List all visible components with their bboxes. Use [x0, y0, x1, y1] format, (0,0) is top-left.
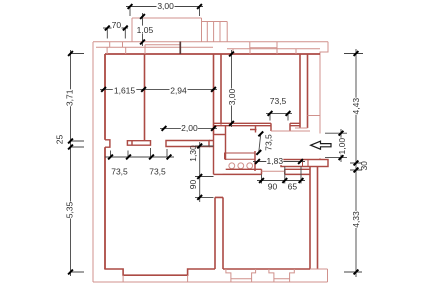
ticks 3,00 vertical: [229, 52, 234, 126]
eaves outline left: [92, 42, 94, 282]
extension lines 73,5 top-right: [270, 113, 288, 120]
dim line 90 / 65: [257, 180, 305, 182]
extension lines 1,00: [325, 133, 347, 157]
svg-text:1,05: 1,05: [137, 25, 154, 35]
balcony steps: [202, 22, 228, 42]
ticks right chain: [354, 51, 359, 274]
label 70: [112, 20, 122, 30]
hall west wall bottom cap: [214, 173, 223, 175]
top wall outer face right section: [227, 48, 320, 50]
label 5,35 rotated: [64, 201, 74, 218]
svg-text:2,94: 2,94: [170, 86, 187, 96]
label 2,00: [181, 123, 198, 133]
svg-text:1,83: 1,83: [267, 156, 284, 166]
ticks 1,05: [140, 14, 145, 44]
svg-text:4,33: 4,33: [351, 211, 361, 228]
svg-text:73,5: 73,5: [149, 166, 166, 176]
svg-text:73,5: 73,5: [270, 96, 287, 106]
ticks 1,83: [255, 159, 303, 164]
central wall upper part: [213, 54, 215, 135]
svg-text:3,71: 3,71: [64, 89, 74, 106]
central wall east line: [220, 54, 222, 125]
dim line 1,05: [142, 13, 144, 46]
label 4,33 rotated: [351, 211, 361, 228]
svg-text:3,00: 3,00: [157, 1, 174, 11]
ticks 1,615 / 2,94: [101, 87, 216, 92]
extension lines 3,00 top: [130, 7, 200, 17]
extension lines 1,30 / 90: [195, 146, 214, 197]
top-right room east wall: [300, 54, 308, 128]
svg-text:4,43: 4,43: [351, 98, 361, 115]
label 1,05: [137, 25, 154, 35]
svg-text:5,35: 5,35: [64, 201, 74, 218]
eaves right entrance lower stub: [319, 158, 321, 160]
left chain extensions: [71, 54, 85, 273]
hall west wall right line: [225, 126, 227, 160]
eaves outline top: [93, 41, 328, 43]
building right wall lower: [310, 167, 318, 270]
label 4,43 rotated: [351, 98, 361, 115]
label 1,83: [266, 156, 283, 166]
dim line 3,00 top: [126, 6, 203, 8]
vestibule north line / threshold: [271, 130, 310, 132]
ticks left chain: [68, 51, 73, 274]
dim line 73,5 / 73,5 doors: [105, 156, 174, 158]
svg-text:25: 25: [55, 135, 65, 145]
stove burner 3: [247, 163, 253, 169]
shaft bottom line: [308, 115, 321, 117]
hall west wall cap: [214, 134, 226, 136]
bottom wall left room inner line with window recess: [104, 269, 215, 275]
pillar (70 cm) on top wall: [107, 42, 126, 54]
interior horizontal wall right jamb: [209, 141, 214, 147]
svg-text:73,5: 73,5: [111, 166, 128, 176]
kitchen counter box: [225, 153, 256, 159]
bottom-right room north wall top line: [226, 168, 310, 170]
window bump top-right: [250, 42, 277, 48]
svg-text:90: 90: [268, 181, 278, 191]
svg-text:70: 70: [112, 20, 122, 30]
dim line 1,00 entrance: [340, 129, 342, 162]
label 2,94: [170, 86, 188, 96]
eaves top right step: [320, 42, 328, 134]
bottom-right room north wall door jambs: [262, 169, 285, 174]
vestibule door jamb at hall: [250, 126, 257, 132]
lower divider wall between bottom rooms: [215, 197, 223, 269]
bottom wall right room inner line: [223, 268, 310, 270]
dim line 1,615 / 2,94: [100, 88, 217, 90]
svg-text:30: 30: [359, 161, 369, 171]
interior wall between small room and middle room: [144, 54, 146, 141]
label 3,00 top: [157, 1, 175, 11]
dim chain 1,30 / 90 left of hall: [199, 142, 201, 202]
ticks 73,5 top-right: [268, 111, 291, 116]
dim line 3,00 vertical: [231, 50, 233, 127]
eaves outline right bottom: [327, 269, 329, 282]
svg-text:1,615: 1,615: [114, 86, 136, 96]
svg-text:2,00: 2,00: [181, 123, 198, 133]
ticks 3,00 top: [128, 4, 202, 9]
ticks 70: [105, 26, 128, 31]
exterior wall left lower: [104, 147, 106, 269]
door threshold bottom-right room: [262, 170, 285, 172]
balcony: [132, 18, 202, 42]
svg-text:90: 90: [188, 180, 198, 190]
dim line 73,5 top-right: [266, 112, 292, 114]
dim line 70: [103, 27, 128, 29]
label 3,71 rotated: [64, 89, 74, 106]
top-right room south wall: [214, 123, 301, 125]
extension ticks 73,5 doors: [111, 148, 168, 157]
interior horizontal wall pier between doors: [127, 141, 150, 146]
kitchen door jamb right: [254, 151, 256, 171]
extension lines 90 / 65: [262, 167, 302, 184]
bottom-right room north wall bottom line: [223, 173, 311, 175]
right dimension chain: [355, 49, 357, 277]
eaves outline bottom: [93, 281, 328, 283]
svg-text:3,00: 3,00: [227, 88, 237, 105]
porch bar pier lines: [303, 160, 309, 167]
window recess side lines to eaves: [123, 275, 188, 282]
svg-text:1,30: 1,30: [188, 145, 198, 162]
hall west wall left line: [213, 135, 215, 175]
dim line 2,00: [160, 127, 217, 129]
entrance porch bar: [281, 160, 328, 167]
ticks 2,00: [162, 126, 216, 131]
ticks 1,30 / 90 chain: [197, 144, 202, 200]
ticks 90 / 65: [259, 178, 303, 183]
dim line 73,5 rotated vertical: [259, 134, 261, 153]
interior horizontal wall threshold box (2,00 opening): [166, 141, 209, 147]
extension lines 70: [107, 28, 125, 39]
window sill line along top wall: [96, 46, 213, 48]
bottom window box 1: [226, 269, 256, 282]
stove burner 2: [238, 163, 244, 169]
label 1,615: [113, 86, 137, 96]
svg-text:1,00: 1,00: [337, 138, 347, 155]
window mullions top-right wall: [233, 48, 296, 54]
stove burner 1: [229, 163, 235, 169]
left dimension chain: [70, 50, 72, 276]
dim line 1,83: [253, 161, 305, 163]
bottom window box 2: [269, 269, 294, 282]
ticks 1,00: [339, 131, 344, 160]
ticks 73,5 doors: [108, 155, 171, 160]
exterior wall top inner line: [105, 53, 320, 55]
right chain extensions: [344, 54, 363, 273]
balcony door dark jamb: [179, 42, 181, 55]
label 3,00 vertical: [227, 88, 237, 105]
exterior wall left upper: [104, 54, 106, 140]
balcony door lines: [145, 45, 180, 54]
interior horizontal wall left jamb jog: [105, 140, 110, 147]
label 1,00 rotated: [337, 138, 347, 155]
top-right room south wall door jambs: [271, 123, 290, 131]
ticks 73,5 rotated: [256, 132, 263, 155]
svg-text:65: 65: [288, 181, 298, 191]
top-right room east wall bottom cap: [295, 127, 308, 129]
svg-text:73,5: 73,5: [263, 134, 273, 151]
entrance direction arrow: [311, 141, 331, 149]
bottom wall right room outer stub: [310, 268, 328, 270]
